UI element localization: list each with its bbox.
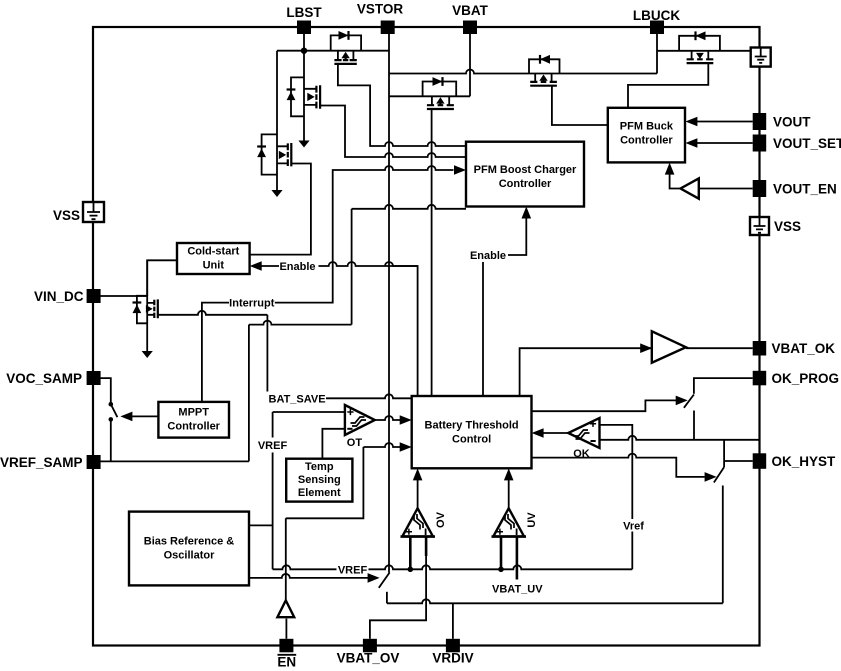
svg-text:UV: UV [526,512,538,528]
svg-text:Enable: Enable [470,250,506,262]
arrowhead enable into cold-start [250,261,262,271]
arrowhead EN into battery control [400,442,412,452]
svg-text:LBUCK: LBUCK [633,8,680,23]
svg-text:Enable: Enable [279,261,315,273]
arrowhead enable into boost controller bottom [522,207,532,219]
transistor M5 buck rectifier PMOS [679,31,720,63]
svg-text:Controller: Controller [167,421,220,433]
svg-text:VSS: VSS [53,208,80,223]
wire OK_PROG switch blade [684,395,694,408]
block Bias Reference & Oscillator [129,512,249,586]
arrowhead OK_PROG switch drive [676,396,688,406]
svg-text:Sensing: Sensing [298,474,341,486]
svg-text:Unit: Unit [203,260,225,272]
wire sample vertical x=248.9 [248,325,250,462]
arrowhead OT output into battery control [400,415,412,425]
svg-text:VREF: VREF [338,564,368,576]
wire VBAT PMOS gate down to battery control [431,109,433,396]
pin LBST [297,21,311,35]
wire VSTOR to VBAT PMOS y=96.3 [389,95,470,97]
arrowhead OK_HYST switch drive [705,472,717,482]
svg-text:VBAT_OK: VBAT_OK [772,341,836,356]
wire OK_HYST drive arrow [532,454,705,477]
svg-text:Vref: Vref [623,521,644,533]
svg-text:VOC_SAMP: VOC_SAMP [6,371,82,386]
wire VRDIV riser [452,603,454,639]
arrowhead into VBAT_OK buffer [640,343,652,353]
transistor M2 boost low-side NMOS [287,77,321,116]
wire VBAT vertical [469,34,471,96]
buffer VBAT_OK [652,331,686,362]
wire Vref to OK comparator plus [600,425,633,569]
wire VOC_SAMP to switch [100,378,111,402]
comparator UV [492,508,539,536]
comparator OK [568,418,599,460]
junction node VOC switch bottom [109,417,114,422]
block MPPT Controller [158,402,229,438]
pin VOUT [753,113,767,130]
svg-text:Oscillator: Oscillator [164,550,215,562]
wire bias to VREF vertical [249,524,273,526]
svg-text:OV: OV [435,511,447,528]
svg-text:PFM Boost Charger: PFM Boost Charger [474,164,577,176]
arrowhead interrupt into boost controller [454,165,466,175]
wire LBST switch-node horizontal y=50.7 [277,50,389,52]
svg-text:Interrupt: Interrupt [229,297,275,309]
svg-text:Controller: Controller [499,178,552,190]
svg-text:VOUT: VOUT [773,115,811,130]
svg-text:LBST: LBST [286,5,322,20]
wire VIN_DC horizontal [100,295,147,297]
wire VSTOR rail vertical x=389 [388,34,390,573]
junction node VREF rail OV plus [408,567,414,573]
pin EN [279,639,293,653]
wire VOUT_SET arrow [697,142,753,144]
svg-text:VIN_DC: VIN_DC [34,289,84,304]
wire buck switch node y=50.8 [657,50,751,52]
wire UV comparator inputs [500,533,503,569]
pin VBAT_OV [363,639,377,653]
wire OV comparator inputs [409,533,412,569]
pin VOUT_SET [753,135,767,152]
wire input PMOS gate line y=314.8 [158,311,268,315]
wire boost controller bottom feedback [352,205,466,209]
wire OT plus to VREF [273,411,345,413]
wire OK_HYST pin stub [724,440,753,467]
svg-text:Control: Control [452,434,491,446]
pin VOUT_EN [753,180,767,197]
wire OK_HYST switch contact [722,486,724,604]
wire OV output arrow stem [417,480,419,509]
svg-text:PFM Buck: PFM Buck [620,121,674,133]
ground symbol VSS left [83,202,104,222]
transistor M1 boost rectifier PMOS [331,31,361,64]
svg-text:Bias Reference &: Bias Reference & [144,536,235,548]
wire Enable boost arrow riser [508,213,526,255]
svg-text:VREF_SAMP: VREF_SAMP [0,455,83,470]
arrowhead UV into battery control [504,468,514,480]
arrowhead VREF switch drive [368,573,380,583]
ground symbol top-right [751,48,771,67]
wire LBUCK vertical [656,34,658,74]
junction node LBST switch node [301,48,307,54]
pin OK_HYST [753,453,767,469]
buffer EN input [277,600,294,617]
wire EN chain to battery control [285,619,287,639]
arrowhead VOUT into buck controller [685,117,697,127]
wire OK output arrow stem [543,432,568,434]
wire VOUT arrow [697,121,753,123]
pin VSTOR [381,21,395,35]
block Temp Sensing Element [286,459,352,502]
wire input PMOS source vertical [146,260,148,351]
junction node VOC switch top [109,402,114,407]
arrowhead MPPT to sample switch [120,412,132,422]
wire OT minus to temp sensor [322,429,345,459]
pin OK_PROG [753,371,767,386]
svg-text:VOUT_SET: VOUT_SET [773,136,841,151]
svg-text:OT: OT [347,437,363,449]
svg-text:BAT_SAVE: BAT_SAVE [269,393,326,405]
ground symbol VSS right [750,217,769,235]
wire sample feedback y=324.6 [249,321,352,325]
svg-text:OK: OK [573,448,590,460]
pin VOC_SAMP [87,371,101,385]
svg-text:VOUT_EN: VOUT_EN [773,182,837,197]
block PFM Buck Controller [608,108,685,163]
svg-text:EN: EN [277,655,296,670]
arrowhead VOUT_EN into buck controller bottom [665,163,675,175]
wire OK minus line y=439.8 [600,436,759,440]
svg-text:Temp: Temp [305,461,334,473]
pin VBAT_OK [753,341,767,356]
wire Enable to cold-start (left segment) [261,265,279,267]
wire boost PMOS gate to controller [338,64,466,146]
comparator OV [401,508,448,536]
transistor M6 cold-start NMOS [257,134,291,174]
transistor M3 VBAT PMOS [423,77,457,109]
comparator OT [345,405,375,449]
wire VOC switch contact riser [110,419,112,461]
wire BAT_SAVE vertical [266,315,268,392]
pin VREF_SAMP [87,455,101,469]
transistor M4 buck high-side PMOS [529,55,560,86]
wire VREF sample switch blade [379,573,390,588]
wire buck rectifier gate to buck controller [628,63,708,108]
svg-text:VSTOR: VSTOR [357,2,404,17]
arrowhead VOUT_SET into buck controller [685,138,697,148]
wire VOUT_EN chain [699,188,753,190]
wire OT output to battery control [375,416,401,420]
svg-text:VBAT_OV: VBAT_OV [337,651,400,666]
wire interrupt MPPT to boost controller [202,303,229,402]
svg-text:Battery Threshold: Battery Threshold [425,420,519,432]
buffer VOUT_EN [681,178,699,198]
wire OK_PROG drive arrow [532,400,677,411]
wire Enable boost vertical to battery control [482,262,484,396]
wire VREF_SAMP horizontal [100,460,249,462]
svg-text:VREF: VREF [258,440,288,452]
outer IC boundary [93,27,760,646]
wire VOC sample switch blade [111,404,118,417]
wire buck PMOS gate to buck controller [552,86,608,125]
ground arrow of M7 [142,351,153,358]
wire bias to sample switch arrow [249,574,368,578]
svg-text:MPPT: MPPT [178,407,209,419]
pin LBUCK [650,21,664,35]
svg-text:VRDIV: VRDIV [432,651,473,666]
transistor M7 input PMOS [133,296,158,324]
svg-text:VBAT_UV: VBAT_UV [492,584,543,596]
svg-text:VSS: VSS [774,219,801,234]
block Cold-start Unit [177,243,250,274]
wire cold-start left to VIN_DC [147,260,177,296]
wire bottom divider rail y=603.3 [387,599,723,603]
wire OK_HYST switch blade [714,467,724,482]
svg-text:VBAT: VBAT [452,3,489,18]
wire VREF sample switch contact [386,592,388,604]
pin VIN_DC [87,289,101,303]
arrowhead OK output into battery control [532,428,544,438]
svg-text:Element: Element [298,487,341,499]
block PFM Boost Charger Controller [466,142,584,207]
wire OK_PROG pin to switch [694,378,753,394]
wire MPPT arrow to switch [132,415,158,417]
ground arrow of M2 [298,141,309,148]
svg-text:OK_PROG: OK_PROG [772,371,840,386]
svg-text:OK_HYST: OK_HYST [772,454,837,469]
block Battery Threshold Control [412,396,532,468]
wire BAT_SAVE to battery control [326,394,412,398]
wire cold-start drain vertical x=277 [276,51,278,190]
ground arrow of M6 [271,190,282,197]
svg-text:Cold-start: Cold-start [187,246,239,258]
wire LBST vertical to low-side arrow [303,34,305,141]
wire VBAT_OK chain [520,348,652,396]
pin VBAT [463,21,477,35]
arrowhead OV into battery control [413,468,423,480]
wire OK_PROG switch contact [693,411,695,440]
wire VSTOR to buck y=73.5 [389,70,657,74]
wire Enable to cold-start (right segment with hops) [319,262,418,396]
wire UV output arrow stem [508,480,510,509]
wire low-side gate to controller [320,106,466,158]
wire VREF rail y=569.3 [273,565,633,569]
wire cold-start right to cascode gate [250,164,311,255]
pin VRDIV [446,639,460,653]
svg-text:Controller: Controller [620,135,673,147]
junction node VREF rail UV plus [498,567,504,573]
